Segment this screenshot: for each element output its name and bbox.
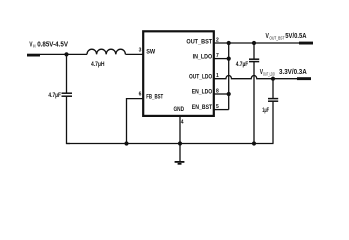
svg-text:OUT_BST: OUT_BST xyxy=(269,35,284,40)
svg-text:3: 3 xyxy=(139,47,142,53)
node GND rail junction xyxy=(178,141,182,145)
svg-text:7: 7 xyxy=(216,53,219,59)
svg-text:SW: SW xyxy=(146,50,155,56)
svg-text:4: 4 xyxy=(181,119,184,125)
svg-text:1: 1 xyxy=(216,73,219,79)
node pin8 junction xyxy=(227,92,231,96)
svg-text:4.7µH: 4.7µH xyxy=(91,61,105,68)
svg-text:2: 2 xyxy=(216,37,219,43)
svg-text:OUT_BST: OUT_BST xyxy=(186,39,212,45)
capacitor C2 4.7uF lead upper xyxy=(253,43,255,59)
svg-text:0.85V-4.5V: 0.85V-4.5V xyxy=(37,40,69,49)
IC U1 regulator box xyxy=(143,31,214,116)
svg-text:6: 6 xyxy=(139,92,142,98)
svg-text:5V/0.5A: 5V/0.5A xyxy=(285,31,307,40)
node top rail cap junction xyxy=(252,41,256,45)
terminal VOUT_LDO xyxy=(297,77,311,80)
node top rail EN junction xyxy=(227,41,231,45)
ground xyxy=(175,161,185,163)
svg-text:8: 8 xyxy=(216,88,219,94)
wire FB_BST to ground rail xyxy=(127,99,143,144)
svg-text:EN_LDO: EN_LDO xyxy=(192,90,213,96)
wire C2 lower lead to ground rail xyxy=(253,62,255,144)
svg-text:OUT_LDO: OUT_LDO xyxy=(189,74,212,80)
capacitor CIN 4.7uF xyxy=(62,92,73,94)
svg-text:FB_BST: FB_BST xyxy=(146,94,163,100)
node FB ground junction xyxy=(124,141,128,145)
wire IN_LDO pin7 xyxy=(215,58,229,60)
wire input cap lead lower to ground rail xyxy=(67,96,71,143)
svg-text:EN_BST: EN_BST xyxy=(192,105,213,111)
terminal VOUT_BST xyxy=(299,42,313,45)
wire inductor to SW pin xyxy=(126,53,143,55)
input terminal VIN xyxy=(27,54,40,57)
svg-text:3.3V/0.3A: 3.3V/0.3A xyxy=(279,67,307,76)
svg-text:5: 5 xyxy=(216,104,219,110)
wire EN_BST pin5 xyxy=(215,109,229,111)
inductor L1 4.7uH xyxy=(87,49,125,54)
node C2 ground junction xyxy=(252,141,256,145)
svg-text:4.7µF: 4.7µF xyxy=(48,92,61,99)
wire GND pin down xyxy=(179,117,181,162)
svg-text:OUT_LDO: OUT_LDO xyxy=(263,72,275,77)
svg-text:4.7µF: 4.7µF xyxy=(236,61,249,68)
svg-text:IN: IN xyxy=(33,44,36,49)
svg-text:1µF: 1µF xyxy=(262,107,269,114)
wire input to inductor xyxy=(40,53,87,55)
node input junction xyxy=(64,52,68,56)
svg-text:GND: GND xyxy=(174,107,185,113)
wire OUT_BST top rail xyxy=(215,42,300,44)
capacitor C3 1uF xyxy=(268,98,278,100)
node LDO rail cap junction xyxy=(271,77,275,81)
wire EN_LDO pin8 xyxy=(215,93,229,95)
node pin7 junction xyxy=(227,57,231,61)
wire input cap lead upper xyxy=(66,54,68,93)
wire EN vertical xyxy=(228,43,230,110)
capacitor C3 1uF lead upper xyxy=(272,79,274,99)
capacitor C2 4.7uF xyxy=(249,58,259,60)
wire C3 lower lead to ground rail xyxy=(272,101,274,143)
wire ground rail xyxy=(67,143,274,145)
wire OUT_LDO rail with hops xyxy=(215,75,298,78)
svg-text:IN_LDO: IN_LDO xyxy=(193,54,213,60)
